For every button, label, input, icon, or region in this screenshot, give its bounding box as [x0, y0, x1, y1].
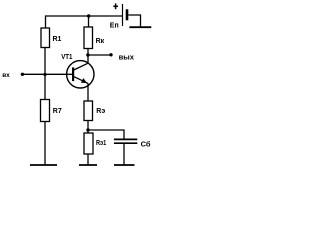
svg-text:Сб: Сб — [141, 139, 151, 148]
svg-text:Еп: Еп — [110, 22, 119, 29]
svg-text:Rк: Rк — [96, 38, 105, 45]
svg-text:VT1: VT1 — [61, 54, 72, 61]
svg-text:R1: R1 — [53, 36, 62, 43]
svg-text:вых: вых — [119, 53, 135, 62]
svg-text:R7: R7 — [53, 108, 62, 115]
svg-text:вх: вх — [2, 72, 10, 79]
svg-text:Rэ: Rэ — [96, 108, 105, 115]
svg-text:Rэ1: Rэ1 — [96, 140, 106, 147]
